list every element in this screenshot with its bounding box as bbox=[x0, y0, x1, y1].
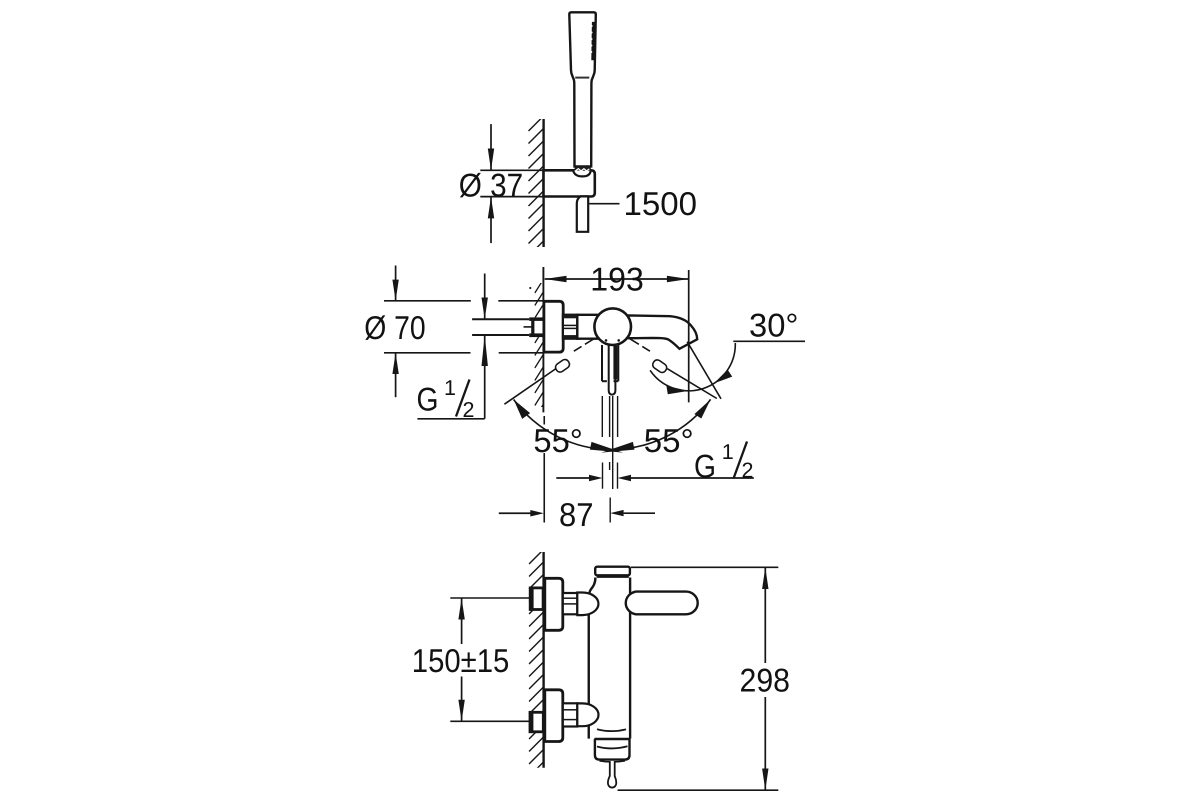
dimension 150±15 : line and arrows bbox=[458, 598, 464, 721]
svg-text:298: 298 bbox=[740, 662, 791, 699]
escutcheon (middle) bbox=[544, 301, 563, 352]
dimension 150±15 : extension lines bbox=[450, 598, 533, 721]
outlet drop nipple bbox=[608, 761, 616, 788]
supply pipe behind wall bbox=[472, 319, 529, 335]
svg-text:193: 193 bbox=[590, 261, 644, 298]
hand shower hose bbox=[577, 196, 588, 231]
55° swing arc left bbox=[514, 400, 623, 453]
wall socket fitting bottom bbox=[530, 712, 543, 732]
30° arc with arrows bbox=[650, 341, 805, 394]
thread label G 1/2 (shower outlet, right) : dimension bbox=[556, 475, 754, 481]
dimension 87 : extension line (wall) bbox=[543, 416, 545, 523]
cone top (side) bbox=[577, 593, 598, 616]
lever rotated position right (phantom) bbox=[630, 339, 717, 399]
wall line (top section) bbox=[542, 119, 544, 247]
wall line (middle) bbox=[542, 267, 544, 412]
svg-text:1: 1 bbox=[722, 440, 734, 464]
top cap bbox=[595, 567, 630, 577]
svg-text:1: 1 bbox=[444, 376, 456, 400]
lever handle (front view, pointing down) bbox=[609, 345, 618, 395]
lever rotated position left (phantom) bbox=[504, 339, 594, 405]
circle dots bbox=[605, 339, 608, 342]
dimension Ø37 : extension lines bbox=[480, 170, 543, 196]
svg-text:2: 2 bbox=[742, 459, 754, 483]
wall hatching (top section) bbox=[529, 116, 545, 257]
svg-text:2: 2 bbox=[463, 398, 475, 422]
dimension Ø70 : extension lines bbox=[384, 301, 544, 353]
svg-text:Ø 70: Ø 70 bbox=[364, 309, 426, 346]
thread label G 1/2 (inlet, left) : text bbox=[417, 376, 475, 422]
hand shower wand bbox=[569, 12, 596, 166]
dimension 298 : line and arrows bbox=[762, 567, 768, 790]
svg-text:G: G bbox=[417, 380, 439, 417]
svg-text:Ø 37: Ø 37 bbox=[459, 166, 524, 203]
dimension 87 : line and arrows bbox=[499, 510, 655, 517]
spout bbox=[628, 315, 697, 348]
svg-text:G: G bbox=[694, 448, 716, 485]
wall socket fitting top bbox=[530, 588, 543, 610]
svg-text:87: 87 bbox=[559, 496, 594, 533]
shower outlet stub below circle bbox=[602, 345, 618, 381]
svg-text:55°: 55° bbox=[644, 422, 694, 459]
thread label G 1/2 (right) : text bbox=[694, 440, 753, 485]
holder bracket bbox=[544, 170, 595, 196]
dimension 298 : extension lines bbox=[618, 567, 779, 790]
cartridge housing circle bbox=[594, 308, 631, 345]
valve body bbox=[577, 315, 601, 339]
thread label G 1/2 (inlet, left) : arrows bbox=[417, 274, 488, 419]
svg-text:30°: 30° bbox=[749, 306, 799, 343]
wall hatching (middle) bbox=[535, 279, 544, 418]
dimension 1500 : leader line bbox=[589, 203, 619, 205]
axis lines below lever bbox=[602, 396, 617, 523]
dimension 193 : line and arrows bbox=[545, 276, 689, 282]
svg-text:55°: 55° bbox=[533, 422, 583, 459]
flange bottom (side) bbox=[545, 690, 563, 742]
dimension Ø70 : arrows bbox=[392, 266, 398, 398]
wand seam line bbox=[575, 77, 589, 79]
nut bottom (side) bbox=[563, 703, 578, 726]
coupling nut bbox=[563, 315, 577, 339]
svg-text:1500: 1500 bbox=[624, 185, 698, 222]
outlet cup at body bottom bbox=[594, 729, 630, 762]
spray nozzle strip (right inner edge of head) bbox=[590, 22, 595, 60]
faucet body (side view) bbox=[589, 578, 630, 739]
wand end cone in holder (cross-hatched) bbox=[573, 167, 591, 177]
cone bottom (side) bbox=[577, 703, 598, 726]
dimension 193 : right extension line bbox=[688, 270, 690, 402]
lever handle (side view) bbox=[626, 592, 698, 615]
stray dot bbox=[529, 287, 531, 289]
30° spout angle line bbox=[687, 342, 721, 399]
flange top (side) bbox=[545, 578, 563, 630]
55° swing arc right bbox=[601, 399, 710, 452]
nut top (side) bbox=[563, 593, 578, 614]
svg-text:150±15: 150±15 bbox=[412, 642, 510, 679]
wall socket fitting bbox=[524, 317, 544, 337]
wall hatching (bottom) bbox=[529, 549, 544, 777]
dimension Ø37 : arrows bbox=[488, 124, 494, 243]
wall line (bottom) bbox=[542, 552, 544, 768]
